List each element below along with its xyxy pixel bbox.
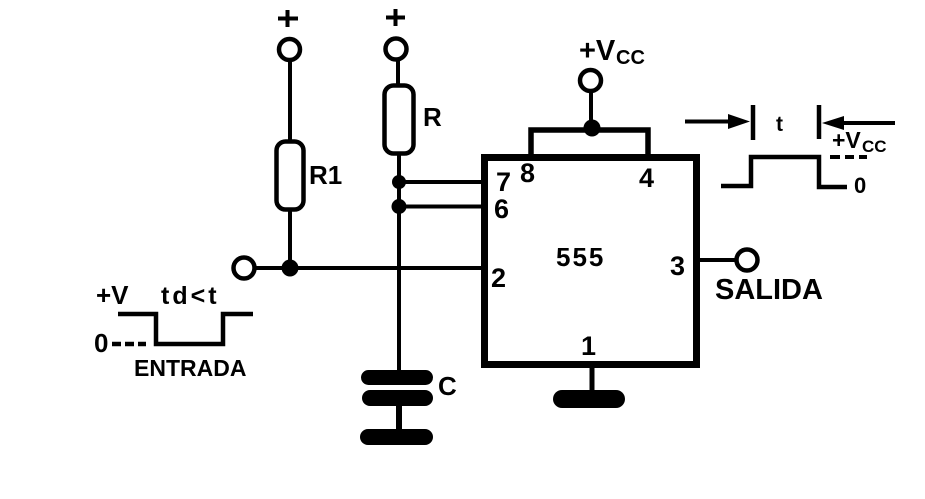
- svg-text:2: 2: [491, 263, 506, 293]
- svg-text:td<t: td<t: [161, 282, 220, 310]
- svg-text:SALIDA: SALIDA: [715, 274, 823, 306]
- wire supply to R1: [288, 60, 292, 140]
- svg-text:7: 7: [496, 167, 511, 197]
- svg-text:t: t: [776, 113, 783, 136]
- resistor R: [385, 86, 414, 154]
- capacitor C plate 1: [361, 370, 433, 385]
- svg-text:1: 1: [581, 331, 596, 361]
- wire R down to capacitor: [397, 153, 401, 372]
- node junction input/R1: [282, 260, 299, 277]
- wire input to pin 2: [255, 266, 487, 270]
- svg-text:CC: CC: [862, 137, 887, 156]
- input pulse waveform: [118, 314, 253, 344]
- svg-text:4: 4: [639, 163, 654, 193]
- wire to pin 6: [399, 205, 486, 209]
- wire capacitor to ground: [396, 406, 402, 430]
- svg-text:+V: +V: [832, 127, 861, 153]
- terminal circle (R supply): [386, 39, 407, 60]
- IC 555 body: [485, 158, 697, 365]
- dashes input zero level: [112, 342, 146, 347]
- resistor R1: [277, 142, 304, 210]
- svg-text:C: C: [438, 371, 457, 401]
- node junction pin 7: [392, 175, 406, 189]
- dashes output Vcc level: [830, 155, 867, 159]
- terminal circle input: [234, 258, 255, 279]
- svg-text:CC: CC: [616, 47, 645, 69]
- node junction pin 6: [392, 199, 407, 214]
- wire bracket pins 8 and 4: [531, 130, 648, 160]
- svg-text:6: 6: [494, 194, 509, 224]
- output timing arrow left: [685, 114, 750, 129]
- wire supply to R: [396, 59, 400, 85]
- ground bar capacitor: [360, 429, 433, 445]
- wire pin 1 to ground: [590, 364, 595, 394]
- capacitor C plate 2: [362, 390, 433, 406]
- svg-text:8: 8: [520, 158, 535, 188]
- wire Vcc to bracket: [589, 91, 593, 128]
- terminal circle output: [737, 250, 758, 271]
- svg-text:555: 555: [556, 242, 605, 272]
- label +Vcc output waveform: [832, 127, 887, 156]
- node junction Vcc: [584, 120, 601, 137]
- terminal circle +Vcc: [580, 70, 601, 91]
- output timing arrow right: [822, 116, 895, 130]
- tick mark left: [751, 105, 756, 140]
- svg-text:0: 0: [94, 328, 108, 358]
- svg-text:0: 0: [854, 173, 866, 198]
- terminal plus sign (R1 supply): [278, 10, 298, 27]
- ground bar IC: [553, 390, 625, 408]
- label +Vcc top: [579, 35, 645, 69]
- svg-text:3: 3: [670, 251, 685, 281]
- svg-text:ENTRADA: ENTRADA: [134, 355, 246, 381]
- svg-text:+V: +V: [579, 35, 616, 67]
- wire R1 to junction: [288, 210, 292, 268]
- wire pin 3 output: [697, 258, 736, 262]
- wire to pin 7: [399, 180, 486, 184]
- svg-text:+V: +V: [96, 280, 129, 310]
- svg-text:R1: R1: [309, 160, 342, 190]
- svg-text:R: R: [423, 102, 442, 132]
- terminal circle (R1 supply): [279, 39, 300, 60]
- terminal plus sign (R supply): [386, 9, 405, 26]
- output pulse waveform: [721, 157, 847, 187]
- tick mark right: [817, 105, 822, 139]
